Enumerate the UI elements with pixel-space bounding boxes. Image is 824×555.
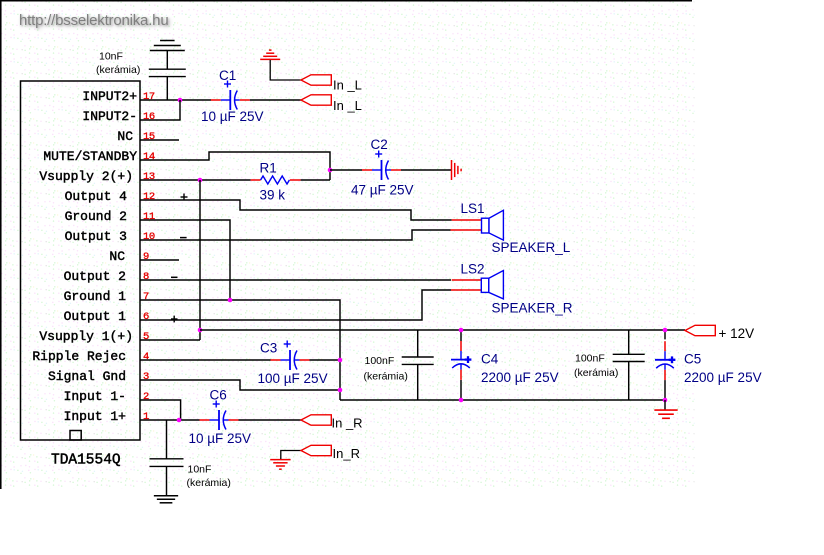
wire pin 13 to R1 (140, 179, 251, 181)
polarity - (pin 8) (171, 276, 178, 278)
svg-text:4: 4 (143, 351, 149, 363)
capacitor C2 (362, 169, 372, 171)
capacitor 100nF ceramic #2 (628, 330, 630, 354)
node junction +12V rail at bus (198, 328, 203, 333)
svg-text:(kerámia): (kerámia) (364, 371, 408, 383)
svg-text:NC: NC (109, 249, 125, 264)
wire pin 12 Output4 to LS1 + (140, 200, 452, 220)
svg-text:Ripple Rejec: Ripple Rejec (32, 349, 126, 364)
connector In _R (upper, signal) (301, 415, 331, 425)
svg-text:2200 µF 25V: 2200 µF 25V (481, 370, 559, 385)
svg-text:C6: C6 (210, 388, 227, 403)
wire pin 16 up to pin 17 (179, 100, 181, 120)
wire vertical Vsupply bus (pin13 to pin5) (199, 180, 201, 340)
wire C1 to In_L connector (250, 99, 301, 101)
wire pin 6 Output1 to LS2 + (140, 290, 451, 320)
svg-text:100nF: 100nF (365, 355, 395, 367)
node junction pin13 branch (198, 178, 203, 183)
wire pin 8 Output2 to LS2 - (140, 279, 451, 281)
svg-text:13: 13 (143, 171, 155, 183)
svg-text:TDA1554Q: TDA1554Q (51, 453, 121, 469)
wire pin 16 stub (140, 119, 181, 121)
connector In_R (lower, grounded) (301, 445, 331, 455)
border frame top (0, 0, 692, 2)
svg-text:NC: NC (117, 129, 133, 144)
svg-text:10: 10 (143, 231, 155, 243)
svg-text:LS1: LS1 (461, 201, 485, 216)
capacitor C3 (271, 359, 281, 361)
wire C6 to In_R connector (239, 419, 302, 421)
svg-text:INPUT2+: INPUT2+ (82, 89, 137, 104)
capacitor C4 (460, 330, 462, 341)
connector In _L (upper, grounded) (301, 75, 331, 85)
svg-text:11: 11 (143, 211, 155, 223)
svg-text:Input 1+: Input 1+ (64, 409, 127, 424)
wire pin 15 NC stub (140, 139, 179, 141)
wire pin 1 down to 10nF ceramic (bottom) (166, 420, 168, 459)
wire C2 to ground (401, 169, 452, 171)
wire In_R shield to ground (281, 451, 301, 460)
svg-text:14: 14 (143, 151, 155, 163)
wire C3 to filter node (310, 359, 341, 361)
polarity - (pin 10) (180, 237, 187, 239)
wire R1 to C2 node (301, 179, 330, 181)
node junction C3/ground bus (338, 358, 343, 363)
wire pin 14 MUTE/STANDBY (140, 152, 330, 180)
speaker LS1 (482, 218, 490, 233)
capacitor 100nF ceramic #1 (417, 330, 419, 357)
wire pin 3 Signal Gnd (140, 380, 340, 390)
IC bottom notch (70, 431, 81, 441)
svg-text:C5: C5 (684, 352, 701, 367)
connector In _L (lower, signal) (301, 95, 331, 105)
svg-text:(kerámia): (kerámia) (96, 64, 140, 76)
ground (red) below C5 (654, 409, 677, 411)
node junction C5 top (663, 328, 668, 333)
svg-text:9: 9 (143, 251, 149, 263)
wire pin 17 to C1 (140, 99, 211, 101)
svg-text:INPUT2-: INPUT2- (82, 109, 137, 124)
polarity + (pin 6) (171, 318, 178, 320)
resistor R1 (251, 179, 261, 181)
polarity + (pin 12) (181, 196, 188, 198)
speaker LS2 (481, 278, 489, 292)
ground (red) for In_R shield (270, 459, 290, 461)
wire 10nF to ground (bottom) (166, 466, 168, 495)
svg-text:Output 1: Output 1 (64, 309, 127, 324)
op-amp U1 TDA1554Q IC body (21, 81, 141, 440)
wire pin 9 NC stub (140, 259, 179, 261)
svg-text:Ground 2: Ground 2 (65, 209, 127, 224)
wire pin 1 Input1+ to C6 (140, 419, 200, 421)
svg-text:C2: C2 (371, 137, 388, 152)
svg-text:1: 1 (143, 411, 149, 423)
svg-text:SPEAKER_L: SPEAKER_L (492, 240, 571, 255)
svg-text:Signal Gnd: Signal Gnd (48, 369, 126, 384)
svg-text:C3: C3 (260, 341, 277, 356)
svg-text:Ground 1: Ground 1 (64, 289, 127, 304)
svg-text:15: 15 (143, 131, 155, 143)
node junction signal gnd (338, 388, 343, 393)
node junction R1/pin14/C2 (328, 168, 333, 173)
wire pin 5 Vsupply1 stub (140, 339, 200, 341)
capacitor C1 (211, 99, 221, 101)
node junction C5 bottom (663, 398, 668, 403)
svg-text:In _R: In _R (332, 416, 363, 431)
svg-text:2: 2 (143, 391, 149, 403)
svg-text:10nF: 10nF (99, 51, 123, 63)
node junction C4 bottom (459, 398, 464, 403)
svg-text:2200 µF 25V: 2200 µF 25V (684, 370, 762, 385)
wire ground to In_L connector (270, 60, 301, 80)
wire pin 2 Input1- (140, 400, 181, 420)
node junction pin11/pin7 (228, 298, 233, 303)
capacitor C6 (200, 419, 210, 421)
node junction pin16/pin17 (178, 98, 183, 103)
ground (bottom, below 10nF) (154, 495, 178, 497)
svg-text:C4: C4 (481, 352, 499, 367)
svg-text:100 µF 25V: 100 µF 25V (258, 371, 328, 386)
wire ground rail (340, 399, 665, 401)
svg-text:3: 3 (143, 371, 149, 383)
capacitor 10nF ceramic (bottom) (150, 458, 184, 460)
speaker LS1 leads (452, 219, 482, 221)
wire C2 node to C2 (330, 169, 362, 171)
node junction pin1/pin2 (177, 418, 182, 423)
svg-text:In _L: In _L (333, 98, 362, 113)
svg-text:In _L: In _L (333, 78, 362, 93)
ground (top, above 10nF ceramic) (150, 50, 185, 52)
border frame left (0, 0, 2, 489)
wire C bottom plate to pin 17 (166, 77, 168, 100)
wire ground to C top plate (166, 51, 168, 69)
svg-text:(kerámia): (kerámia) (187, 477, 231, 489)
svg-text:+ 12V: + 12V (719, 326, 755, 341)
svg-text:7: 7 (143, 291, 149, 303)
svg-text:MUTE/STANDBY: MUTE/STANDBY (43, 149, 137, 164)
ground (red, sideways) at C2 (451, 160, 453, 180)
wire pin 4 Ripple Rejec to C3 (140, 359, 271, 361)
wire C5 bottom to ground (664, 400, 666, 410)
svg-text:C1: C1 (219, 68, 236, 83)
svg-text:10 µF 25V: 10 µF 25V (189, 431, 252, 446)
svg-text:LS2: LS2 (461, 262, 485, 277)
svg-text:16: 16 (143, 111, 155, 123)
svg-text:Output 2: Output 2 (64, 269, 126, 284)
wire pin 11 Ground2 down (140, 220, 230, 300)
svg-text:8: 8 (143, 271, 149, 283)
svg-text:Vsupply 1(+): Vsupply 1(+) (39, 329, 133, 344)
capacitor 10nF ceramic (top) (149, 68, 186, 70)
svg-text:6: 6 (143, 311, 149, 323)
svg-text:R1: R1 (260, 161, 277, 176)
svg-text:(kerámia): (kerámia) (574, 367, 618, 379)
svg-text:SPEAKER_R: SPEAKER_R (492, 301, 573, 316)
node junction C4 top (459, 328, 464, 333)
svg-text:17: 17 (143, 91, 155, 103)
svg-text:100nF: 100nF (575, 353, 605, 365)
svg-text:Output 3: Output 3 (65, 229, 127, 244)
svg-text:In_R: In_R (333, 446, 360, 461)
svg-text:Input 1-: Input 1- (64, 389, 126, 404)
wire pin 10 Output3 to LS1 - (140, 230, 451, 240)
svg-text:Vsupply 2(+): Vsupply 2(+) (39, 169, 133, 184)
ground (red, inverted) for In_L shield (260, 58, 280, 60)
svg-text:12: 12 (143, 191, 155, 203)
wire pin 7 Ground1 (140, 300, 340, 400)
svg-text:Output 4: Output 4 (65, 189, 128, 204)
svg-text:10 µF 25V: 10 µF 25V (201, 109, 264, 124)
svg-text:39 k: 39 k (260, 188, 286, 203)
connector +12V (685, 325, 715, 335)
svg-text:5: 5 (143, 331, 149, 343)
wire +12V rail (200, 329, 685, 331)
speaker LS2 leads (452, 279, 482, 281)
svg-text:47 µF 25V: 47 µF 25V (351, 183, 414, 198)
capacitor C5 (664, 330, 666, 339)
svg-text:10nF: 10nF (188, 464, 212, 476)
